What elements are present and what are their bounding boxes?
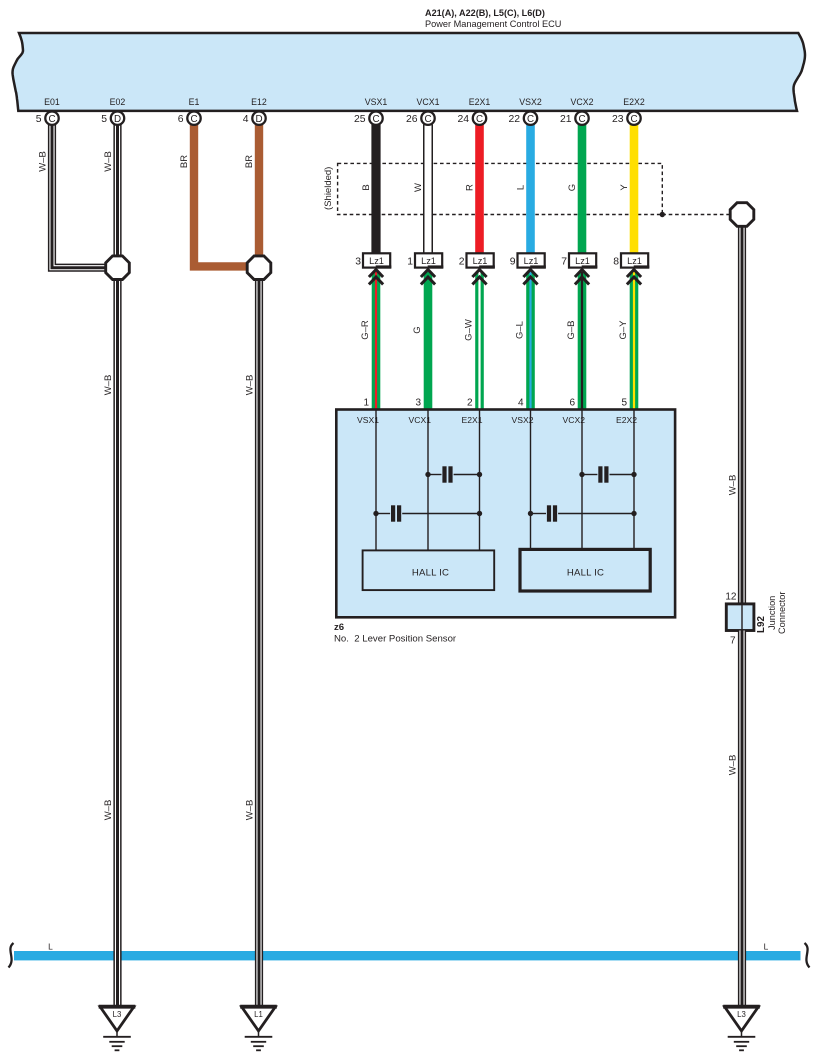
internal lead VSX2	[530, 410, 532, 550]
svg-text:z6: z6	[334, 622, 344, 633]
svg-text:R: R	[464, 184, 475, 191]
svg-text:E02: E02	[110, 97, 126, 107]
wire G–Y from Lz1 to sensor pin 5	[630, 272, 639, 410]
svg-text:Lz1: Lz1	[473, 256, 488, 266]
pin VCX2 21(C)	[560, 97, 594, 125]
capacitor C-a between VCX1 and E2X1	[425, 466, 482, 482]
svg-text:1: 1	[407, 257, 413, 268]
svg-text:A21(A), A22(B), L5(C), L6(D): A21(A), A22(B), L5(C), L6(D)	[425, 8, 545, 18]
svg-text:W: W	[413, 183, 424, 192]
svg-text:L: L	[515, 185, 526, 190]
ECU band: Power Management Control ECU	[13, 33, 806, 111]
svg-text:HALL IC: HALL IC	[567, 568, 604, 579]
svg-text:4: 4	[243, 114, 249, 125]
svg-text:5: 5	[101, 114, 107, 125]
svg-text:VCX1: VCX1	[417, 97, 440, 107]
svg-text:W–B: W–B	[38, 151, 49, 172]
svg-text:E2X2: E2X2	[623, 97, 645, 107]
svg-text:(Shielded): (Shielded)	[323, 167, 334, 210]
wire BR from pin E12 to junction J2	[255, 125, 263, 257]
svg-text:Y: Y	[619, 184, 630, 191]
wire W-B from pin E02 to junction J1	[113, 125, 121, 257]
ground point L3 (right)	[723, 1007, 760, 1051]
svg-text:6: 6	[178, 114, 184, 125]
svg-text:2: 2	[459, 257, 465, 268]
svg-text:L3: L3	[113, 1010, 122, 1019]
svg-text:HALL IC: HALL IC	[412, 568, 449, 579]
svg-text:C: C	[190, 114, 197, 125]
svg-text:24: 24	[457, 114, 469, 125]
svg-text:9: 9	[510, 257, 516, 268]
svg-text:25: 25	[354, 114, 366, 125]
ground point L1 (centre)	[240, 1007, 277, 1051]
svg-text:G–B: G–B	[566, 320, 577, 339]
svg-text:D: D	[114, 114, 121, 125]
wire W-B from L92 pin 7 to ground L3	[738, 631, 746, 1008]
HALL IC block 2	[520, 549, 650, 591]
pin E1 6(C)	[178, 97, 201, 125]
svg-text:26: 26	[406, 114, 418, 125]
svg-text:G–Y: G–Y	[618, 320, 629, 340]
pin E2X2 23(C)	[612, 97, 645, 125]
svg-text:VSX2: VSX2	[519, 97, 542, 107]
connector Lz1 pin 2	[459, 253, 495, 268]
internal lead VCX1	[427, 410, 429, 551]
svg-text:C: C	[578, 114, 585, 125]
svg-text:Lz1: Lz1	[421, 256, 436, 266]
svg-text:W–B: W–B	[728, 475, 739, 496]
pin VSX2 22(C)	[508, 97, 541, 125]
svg-text:C: C	[372, 114, 379, 125]
connector Lz1 pin 3	[355, 253, 391, 268]
dashed shield drain line to junction octagon	[662, 214, 729, 216]
wire W-B from junction J2 down to ground L1	[255, 279, 263, 1007]
capacitor C-d between VSX2 and E2X2	[528, 505, 637, 521]
svg-text:G: G	[412, 326, 423, 333]
internal lead E2X2	[633, 410, 635, 550]
svg-text:No. 2 Lever Position Sensor: No. 2 Lever Position Sensor	[334, 633, 457, 644]
connector Lz1 pin 9	[510, 253, 546, 268]
svg-text:C: C	[527, 114, 534, 125]
svg-text:Lz1: Lz1	[524, 256, 539, 266]
svg-text:6: 6	[569, 397, 575, 408]
svg-text:W–B: W–B	[245, 800, 256, 821]
junction J2 (octagon splice)	[247, 256, 271, 280]
bus break mark right	[805, 943, 810, 968]
svg-text:Junction: Junction	[767, 596, 777, 630]
svg-text:22: 22	[508, 114, 520, 125]
wire G–L from Lz1 to sensor pin 4	[526, 272, 535, 410]
internal lead VCX2	[581, 410, 583, 550]
svg-text:7: 7	[561, 257, 567, 268]
capacitor C-c between VCX2 and E2X2	[579, 466, 636, 482]
wire B from VSX1 to Lz1 pin 3	[371, 125, 380, 254]
svg-text:W–B: W–B	[103, 375, 114, 396]
ground point L3 (left)	[99, 1007, 136, 1051]
HALL IC block 1	[363, 550, 495, 590]
svg-text:5: 5	[36, 114, 42, 125]
wire W-B from pin E01 to junction J1	[52, 125, 107, 268]
svg-text:L92: L92	[756, 616, 767, 633]
sensor z6: No. 2 Lever Position Sensor box	[336, 410, 675, 618]
svg-text:21: 21	[560, 114, 572, 125]
arrowheads (wire continues)	[627, 270, 641, 285]
svg-text:Lz1: Lz1	[627, 256, 642, 266]
arrowheads (wire continues)	[421, 270, 435, 285]
svg-text:BR: BR	[179, 155, 190, 168]
svg-text:E1: E1	[189, 97, 200, 107]
wire G from Lz1 to sensor pin 3	[424, 272, 433, 410]
svg-text:W–B: W–B	[103, 151, 114, 172]
pin E02 5(D)	[101, 97, 125, 125]
wire W-B from junction J3 to junction connector L92 pin 12	[738, 226, 746, 604]
svg-text:W–B: W–B	[245, 375, 256, 396]
arrowheads (wire continues)	[575, 270, 589, 285]
wire W from VCX1 to Lz1 pin 1	[423, 125, 433, 254]
svg-text:D: D	[255, 114, 262, 125]
junction J3 (octagon splice, shield drain)	[730, 203, 754, 227]
svg-text:C: C	[424, 114, 431, 125]
wire G–R from Lz1 to sensor pin 1	[372, 272, 381, 410]
wire BR from pin E1 to junction J2	[194, 125, 248, 267]
connector Lz1 pin 7	[561, 253, 597, 268]
svg-text:Connector: Connector	[777, 592, 787, 634]
bus break mark left	[9, 943, 14, 968]
svg-text:G: G	[567, 184, 578, 191]
wire G–B from Lz1 to sensor pin 6	[578, 272, 587, 410]
svg-text:1: 1	[363, 397, 369, 408]
junction dot on shield corner	[660, 212, 665, 217]
junction connector L92	[726, 604, 754, 631]
internal lead VSX1	[375, 410, 377, 551]
arrowheads (wire continues)	[369, 270, 383, 285]
connector Lz1 pin 8	[613, 253, 649, 268]
svg-text:BR: BR	[244, 155, 255, 168]
svg-text:VSX1: VSX1	[365, 97, 388, 107]
ground bus wire L (cyan)	[14, 951, 801, 960]
svg-text:L1: L1	[254, 1010, 263, 1019]
internal lead E2X1	[479, 410, 481, 551]
svg-text:G–W: G–W	[464, 319, 475, 341]
svg-text:3: 3	[355, 257, 361, 268]
wire G from VCX2 to Lz1 pin 7	[578, 125, 587, 254]
pin E01 5(C)	[36, 97, 60, 125]
svg-text:Lz1: Lz1	[575, 256, 590, 266]
wire W-B from junction J1 down to ground L3	[113, 279, 121, 1007]
svg-text:12: 12	[725, 592, 737, 603]
svg-text:E2X1: E2X1	[469, 97, 491, 107]
svg-text:8: 8	[613, 257, 619, 268]
svg-text:L: L	[48, 941, 53, 951]
svg-text:B: B	[361, 184, 372, 190]
svg-text:2: 2	[467, 397, 473, 408]
svg-text:E12: E12	[251, 97, 267, 107]
wire G–W from Lz1 to sensor pin 2	[475, 272, 484, 410]
svg-text:VCX2: VCX2	[571, 97, 594, 107]
pin VCX1 26(C)	[406, 97, 440, 125]
svg-text:L3: L3	[737, 1010, 746, 1019]
svg-text:W–B: W–B	[103, 800, 114, 821]
capacitor C-b between VSX1 and E2X1	[373, 505, 482, 521]
wire R from E2X1 to Lz1 pin 2	[475, 125, 484, 254]
svg-text:Lz1: Lz1	[369, 256, 384, 266]
svg-text:W–B: W–B	[728, 755, 739, 776]
svg-text:23: 23	[612, 114, 624, 125]
pin E12 4(D)	[243, 97, 267, 125]
svg-text:L: L	[764, 941, 769, 951]
arrowheads (wire continues)	[523, 270, 537, 285]
junction J1 (octagon splice)	[106, 256, 130, 280]
svg-text:3: 3	[415, 397, 421, 408]
svg-text:5: 5	[621, 397, 627, 408]
svg-text:Power Management Control ECU: Power Management Control ECU	[425, 19, 561, 29]
svg-text:G–R: G–R	[360, 320, 371, 340]
shield dashed box (Shielded)	[338, 163, 663, 214]
svg-text:C: C	[630, 114, 637, 125]
svg-text:C: C	[48, 114, 55, 125]
arrowheads (wire continues)	[472, 270, 486, 285]
pin E2X1 24(C)	[457, 97, 490, 125]
svg-text:E01: E01	[44, 97, 60, 107]
svg-text:C: C	[476, 114, 483, 125]
wire L from VSX2 to Lz1 pin 9	[526, 125, 535, 254]
wire Y from E2X2 to Lz1 pin 8	[630, 125, 639, 254]
svg-text:G–L: G–L	[515, 321, 526, 339]
svg-text:4: 4	[518, 397, 524, 408]
connector Lz1 pin 1	[407, 253, 443, 268]
svg-text:7: 7	[730, 636, 736, 647]
pin VSX1 25(C)	[354, 97, 387, 125]
